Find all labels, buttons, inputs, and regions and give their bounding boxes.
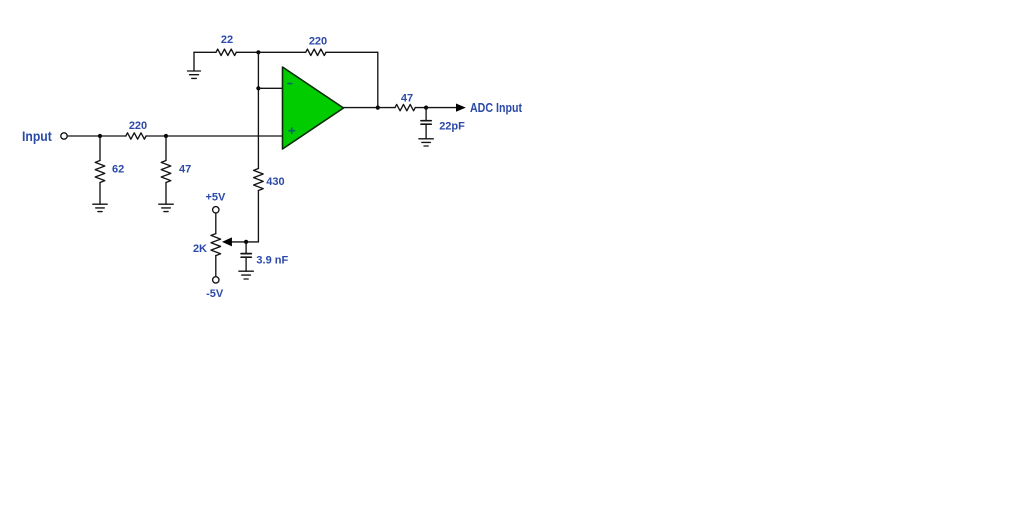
svg-text:220: 220 xyxy=(309,36,327,48)
ground below C 3.9 nF xyxy=(239,271,253,279)
wire R430 bottom to wiper arrow xyxy=(232,241,259,243)
wiper arrow into potentiometer xyxy=(222,237,232,246)
resistor R 22 (feedback to ground) xyxy=(194,34,258,56)
svg-text:2K: 2K xyxy=(193,243,207,255)
node B junction xyxy=(164,134,168,138)
resistor R 430 xyxy=(254,169,285,242)
svg-text:47: 47 xyxy=(179,164,191,176)
+5V terminal xyxy=(205,192,226,214)
wire node B to op-amp plus input xyxy=(166,135,283,137)
resistor R 220 (feedback) xyxy=(258,36,377,56)
wire node F to ADC arrow xyxy=(426,107,456,109)
ground below R62 xyxy=(93,204,107,211)
wire R220 to node B xyxy=(146,135,166,137)
wire node D to op-amp minus input xyxy=(258,87,282,89)
svg-text:430: 430 xyxy=(266,176,284,188)
potentiometer 2K xyxy=(193,213,221,277)
svg-text:-5V: -5V xyxy=(206,288,224,300)
input terminal xyxy=(61,133,67,139)
wire feedback corner down to output node xyxy=(377,52,379,107)
node A junction xyxy=(98,134,102,138)
svg-text:22pF: 22pF xyxy=(439,121,465,133)
svg-text:62: 62 xyxy=(112,164,124,176)
svg-text:47: 47 xyxy=(401,93,413,105)
node D junction (minus input) xyxy=(256,86,260,90)
svg-text:220: 220 xyxy=(129,120,147,132)
svg-text:Input: Input xyxy=(22,129,52,144)
resistor R 220 (input series) xyxy=(100,120,147,139)
capacitor C 22pF xyxy=(421,108,465,139)
wire op-amp output to node E xyxy=(344,107,378,109)
wire vertical from node C down through minus branch to R430 xyxy=(257,52,259,168)
svg-text:+5V: +5V xyxy=(205,192,226,204)
node C junction (top) xyxy=(256,50,260,54)
ground at R22 xyxy=(188,52,201,78)
svg-text:3.9 nF: 3.9 nF xyxy=(256,255,288,267)
ground below R47 xyxy=(159,204,173,211)
svg-text:ADC Input: ADC Input xyxy=(470,101,523,115)
op-amp U1 xyxy=(283,67,344,149)
resistor R 62 xyxy=(95,136,124,204)
node G junction (wiper net) xyxy=(244,240,248,244)
ground below C 22pF xyxy=(419,139,433,146)
arrow to ADC Input xyxy=(456,104,466,112)
resistor R 47 (input shunt) xyxy=(161,136,191,204)
svg-text:22: 22 xyxy=(221,34,233,46)
node E junction (output) xyxy=(376,106,380,110)
node F junction xyxy=(424,106,428,110)
capacitor C 3.9 nF xyxy=(241,242,288,271)
wire input terminal to node A xyxy=(67,135,100,137)
-5V terminal xyxy=(206,277,224,300)
resistor R 47 (output series) xyxy=(378,93,426,111)
